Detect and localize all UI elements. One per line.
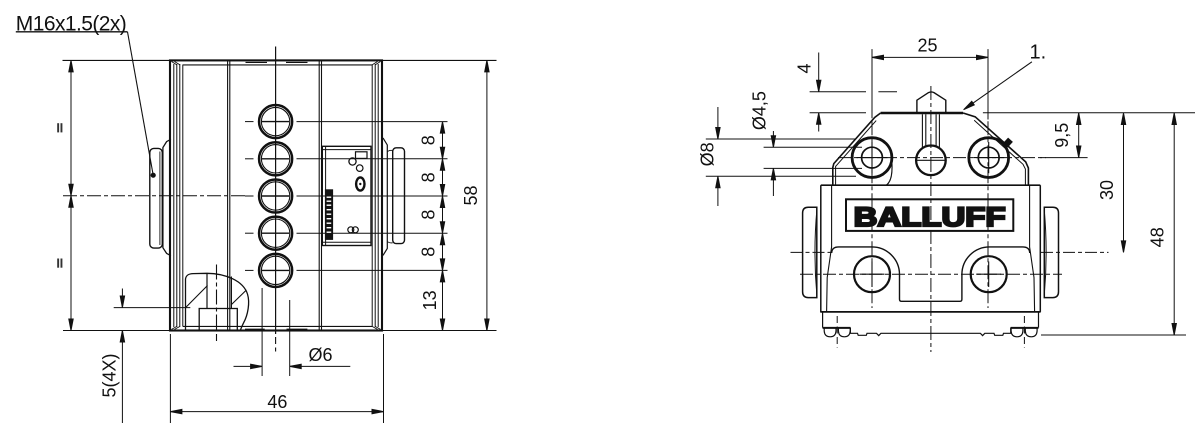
switch oval grommet: [356, 177, 364, 190]
node mid centerline left: [63, 195, 246, 197]
logo frame: [846, 199, 1013, 231]
connector right cap: [393, 148, 405, 244]
svg-text:1.: 1.: [1030, 42, 1047, 64]
body outline: [170, 60, 382, 330]
dimension diameter 4,5: [764, 131, 862, 196]
svg-text:Ø4,5: Ø4,5: [750, 91, 770, 130]
svg-text:Ø8: Ø8: [698, 142, 718, 166]
body bottom groove segments: [245, 328, 307, 330]
head top edge: [881, 112, 964, 114]
top extension line right view: [983, 112, 1195, 114]
connector right joints: [388, 150, 393, 243]
svg-text:8: 8: [419, 135, 439, 145]
plunger rect: [199, 309, 237, 331]
body right crimp lines: [372, 64, 378, 327]
plunger top extension line: [114, 307, 191, 309]
switch label strip: [325, 189, 333, 240]
body seam lines left-middle: [228, 60, 230, 330]
equal mark upper: [57, 123, 62, 132]
switch terminal block: [356, 152, 368, 159]
dimension 9,5: [1077, 113, 1081, 158]
dimension 30: [1121, 113, 1125, 252]
connector gland left seam: [159, 152, 161, 246]
head bottom / body shoulder line: [821, 184, 1041, 186]
centerline pill left: [791, 251, 833, 253]
body inner top line: [183, 64, 372, 66]
svg-text:13: 13: [420, 290, 440, 310]
centerline pill right: [1041, 251, 1109, 253]
side pill right: [1044, 207, 1058, 297]
switch plate outline: [322, 146, 371, 245]
screw boss top-right: [969, 138, 1009, 178]
dimension 46: [170, 334, 383, 423]
plunger dome outline: [186, 273, 249, 330]
body top groove segments: [246, 61, 308, 63]
feet profile: [823, 312, 1039, 337]
head outline left: [833, 113, 881, 185]
switch plate inner lines: [322, 146, 371, 245]
dimension 58: [485, 60, 489, 330]
hole circle 3: [245, 179, 292, 212]
centerline horizontal screws: [838, 157, 1046, 159]
black tab on right slant: [1003, 138, 1013, 148]
connector gland left flange: [150, 148, 163, 248]
svg-text:8: 8: [419, 247, 439, 257]
centerline foot right: [1023, 316, 1025, 348]
side pill left: [803, 207, 817, 297]
svg-text:4: 4: [795, 63, 815, 73]
centerline horizontal mount holes: [800, 273, 1062, 275]
boss fillet left: [887, 162, 893, 186]
svg-text:25: 25: [917, 36, 937, 56]
connector gland left back piece: [163, 139, 171, 255]
dimension chain 8x4 and 13: [440, 122, 444, 331]
body inner taper left: [827, 185, 832, 312]
plunger hatch diagonals: [186, 286, 247, 308]
plunger inner verticals: [207, 273, 231, 308]
wire top extension line left: [63, 59, 170, 61]
svg-text:58: 58: [461, 185, 481, 205]
plunger centerline: [216, 265, 218, 332]
svg-text:5(4X): 5(4X): [100, 353, 120, 397]
svg-text:30: 30: [1097, 180, 1117, 200]
connector right trapezoid: [383, 138, 387, 256]
svg-text:Ø6: Ø6: [308, 345, 332, 365]
centerline vertical screw left: [871, 49, 873, 308]
body left crimp lines: [174, 64, 183, 327]
equal mark lower: [57, 259, 62, 268]
svg-text:48: 48: [1148, 227, 1168, 247]
switch small circle: [356, 165, 363, 172]
hole circle column centerline: [275, 47, 277, 335]
hole circle 4: [245, 217, 292, 250]
wire top extension line right: [383, 59, 497, 61]
pin slot lines: [922, 114, 939, 147]
hole circle 5: [245, 254, 292, 287]
hole circle 2: [245, 142, 292, 175]
dimension 5(4X): [120, 289, 124, 424]
body side right: [1039, 185, 1041, 312]
body side left: [820, 185, 822, 312]
body right crimp bevels: [372, 62, 380, 330]
mount hole bottom-left: [854, 256, 890, 292]
centerline foot left: [836, 316, 838, 348]
body inner taper right: [1030, 185, 1035, 312]
plunger pin pentagon: [917, 92, 946, 113]
wire row extension lines to 8-dims: [297, 122, 448, 271]
dimension 25: [872, 49, 988, 119]
base plate bottom: [820, 311, 1040, 313]
screw center extension right: [1040, 157, 1088, 159]
wire bottom extension line: [63, 330, 497, 332]
switch screw c-shape: [349, 158, 356, 165]
label 1. with leader: [962, 42, 1046, 112]
centerline vertical main: [930, 86, 932, 352]
svg-text:8: 8: [419, 210, 439, 220]
svg-text:46: 46: [267, 392, 287, 412]
head inner slant lines: [836, 120, 1026, 185]
body inner bottom line: [183, 325, 372, 327]
mount hole bottom-right: [971, 256, 1007, 292]
dimension diameter 6: [234, 288, 351, 376]
screw boss top-left: [852, 138, 892, 178]
svg-text:BALLUFF: BALLUFF: [854, 202, 1006, 232]
head outline right: [963, 113, 1028, 185]
bottom extension line right view: [1041, 334, 1186, 336]
bridge contour: [832, 247, 1030, 301]
centerline vertical screw right: [987, 49, 989, 308]
label M16x1.5(2x): [16, 13, 156, 178]
body seam lines right-middle: [319, 60, 321, 330]
dimension 48: [1172, 113, 1176, 335]
dimension diameter 8: [706, 107, 856, 206]
dimension equal-split left: [69, 60, 73, 330]
hole circle 1: [245, 105, 292, 138]
body left crimp bevels: [172, 62, 181, 330]
svg-text:9,5: 9,5: [1052, 123, 1072, 148]
svg-text:8: 8: [419, 172, 439, 182]
dimension 4: [810, 53, 897, 132]
central circle: [916, 146, 946, 176]
switch bottom screw pair: [348, 227, 354, 233]
